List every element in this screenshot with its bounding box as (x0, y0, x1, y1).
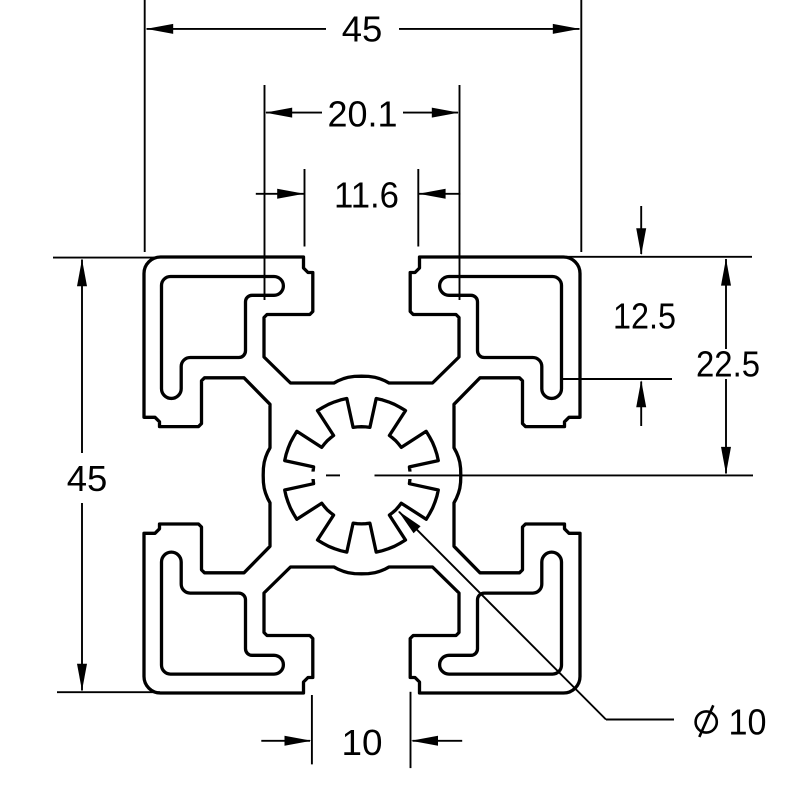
dimension: slot face opening 11.6 (256, 169, 461, 247)
corner hollow chamber bottom-left (162, 552, 284, 674)
corner hollow chamber top-right (440, 277, 562, 399)
svg-text:45: 45 (67, 458, 108, 499)
dimension: T-slot chamber width 20.1 (265, 85, 460, 300)
svg-text:11.6: 11.6 (334, 175, 399, 216)
dimension: slot opening 10 (bottom) (261, 692, 462, 768)
svg-text:10: 10 (729, 701, 767, 742)
corner hollow chamber bottom-right (440, 552, 562, 674)
svg-text:10: 10 (342, 722, 383, 763)
svg-text:12.5: 12.5 (613, 296, 676, 337)
dimension: overall height 45 (left) (53, 258, 160, 693)
svg-text:20.1: 20.1 (328, 94, 398, 135)
dimension: face-to-center 22.5 (696, 259, 760, 474)
dimension: overall width 45 (top) (145, 0, 582, 252)
centerline through bore (326, 474, 753, 476)
leader: center bore diameter 10 (398, 511, 767, 743)
dimension: slot depth 12.5 (560, 206, 752, 426)
svg-text:45: 45 (342, 9, 383, 50)
gaps in bore outline at centerline crossing (404, 472, 416, 479)
svg-text:22.5: 22.5 (696, 344, 760, 385)
center bore with 8 inward teeth (285, 399, 439, 553)
profile outer boundary with four T-slots (144, 257, 580, 693)
corner hollow chamber top-left (162, 277, 284, 399)
